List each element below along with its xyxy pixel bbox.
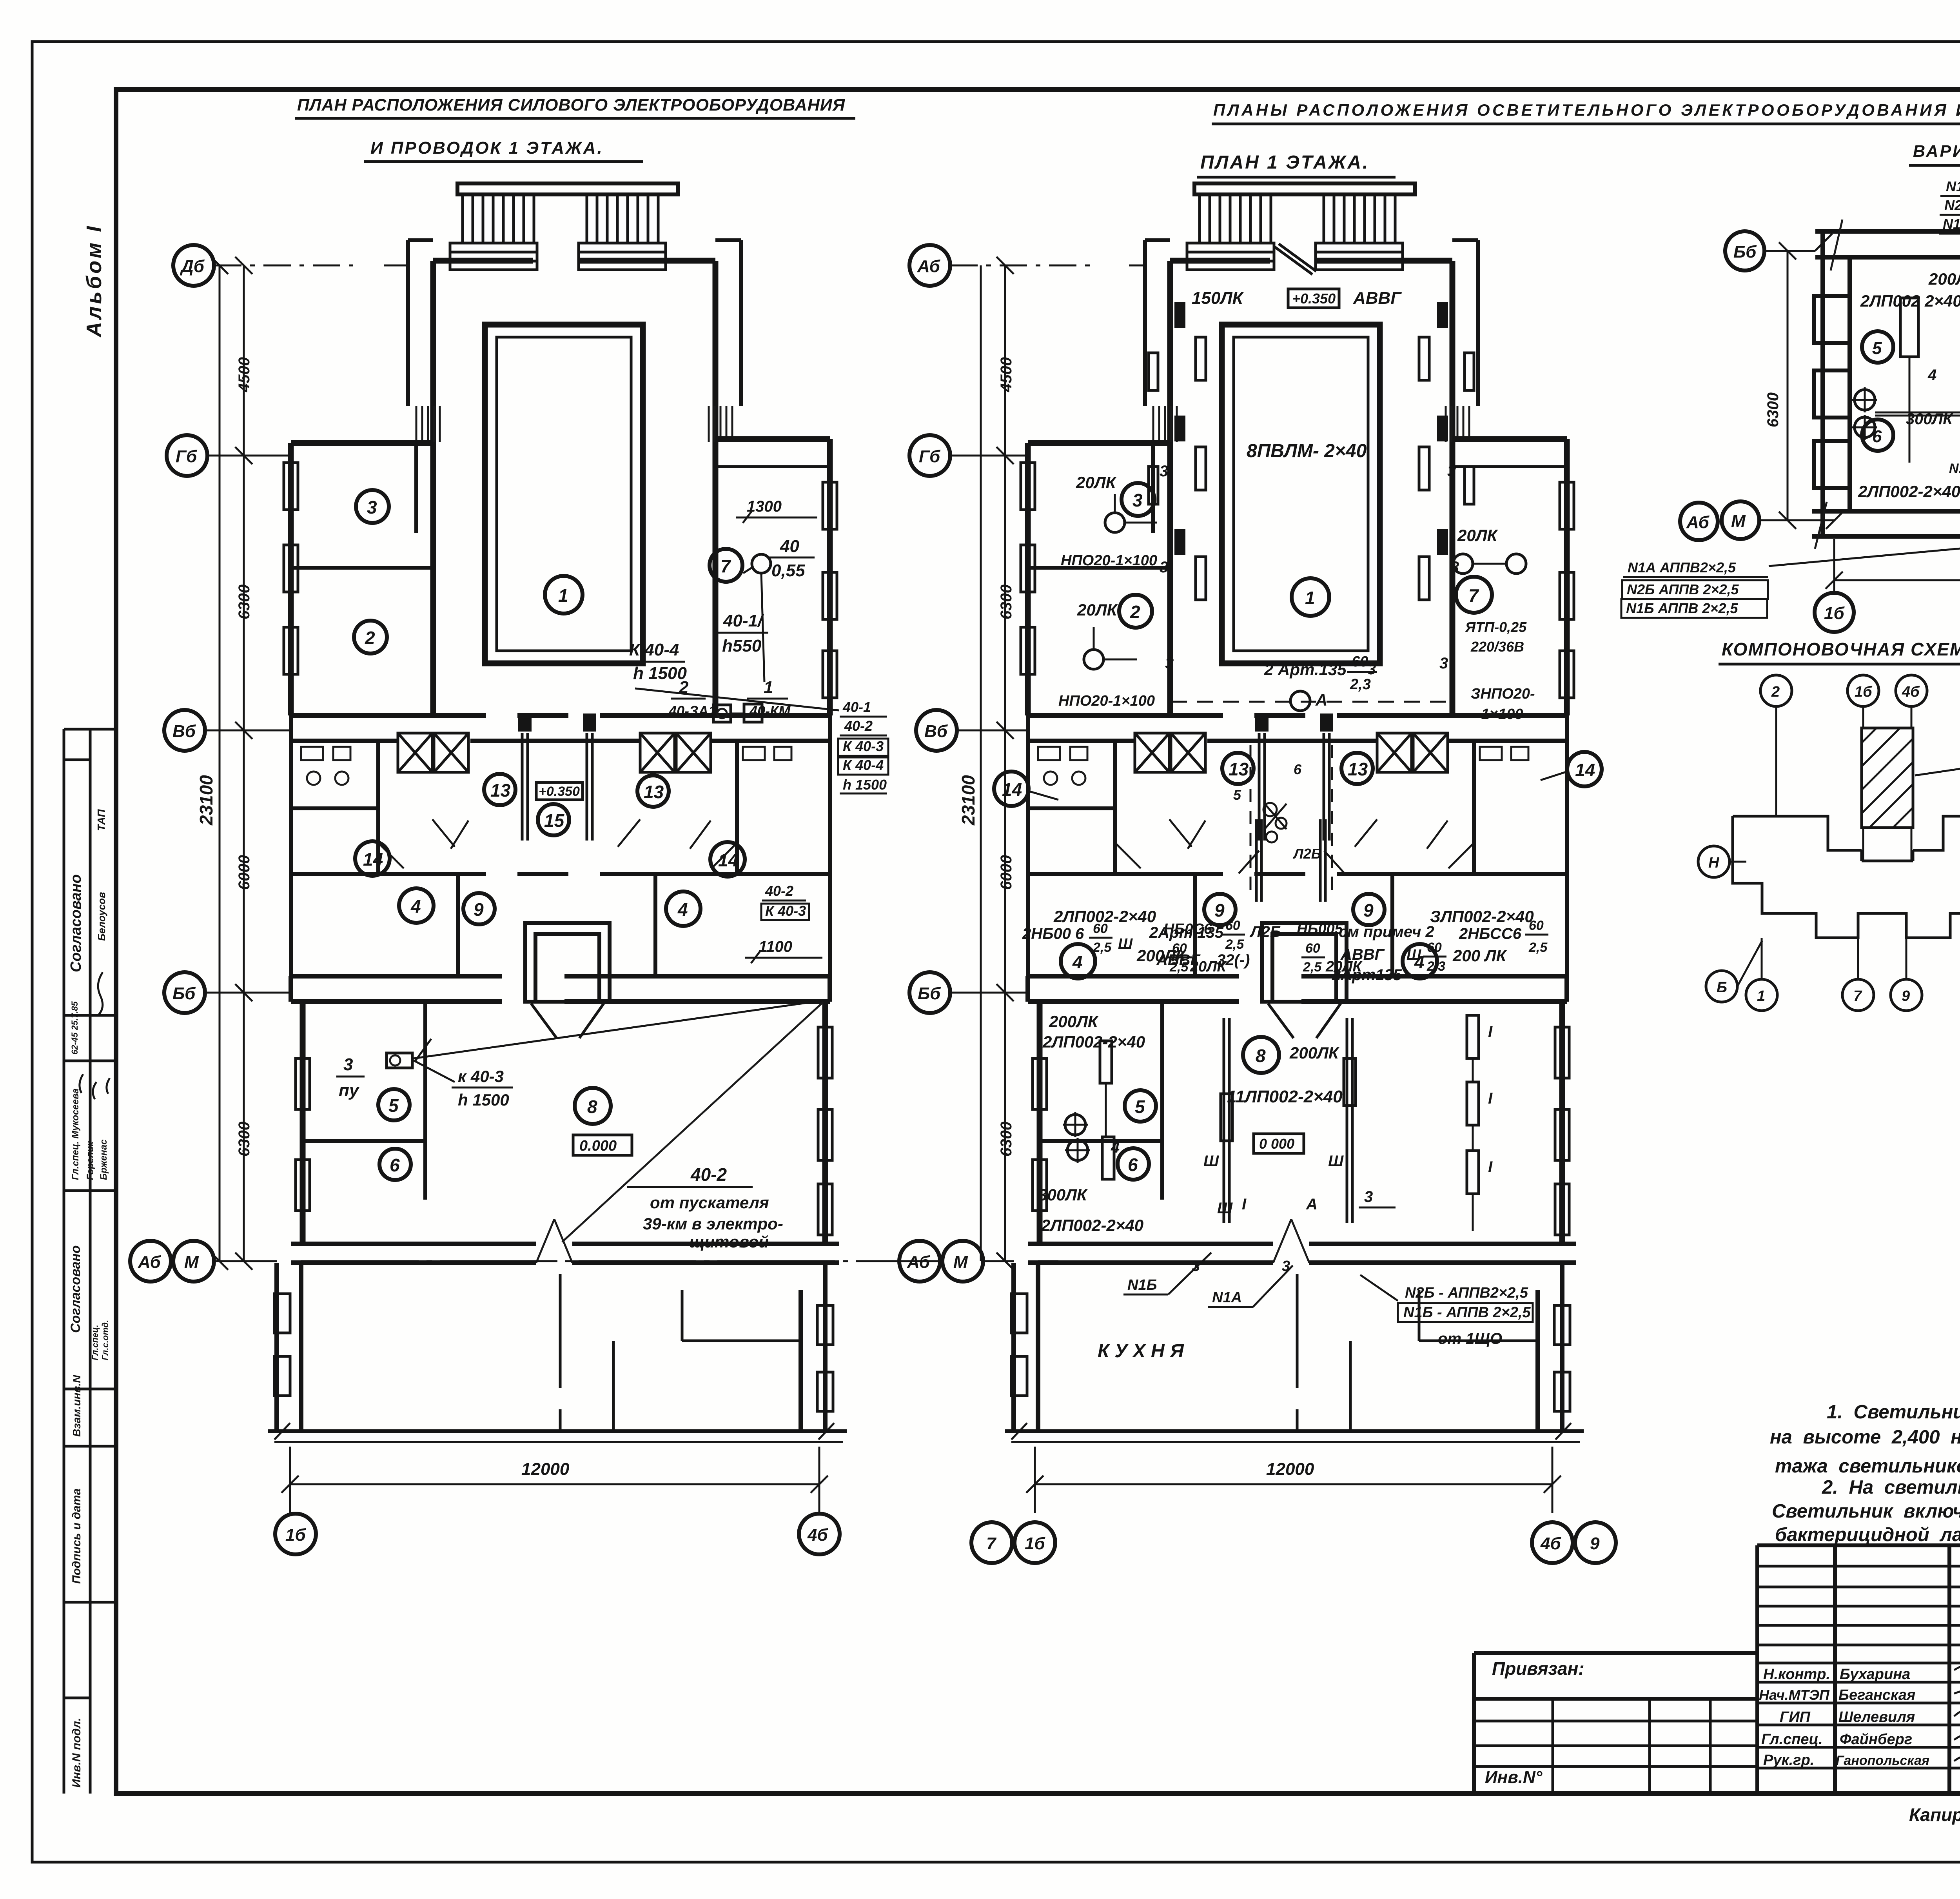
svg-text:ГИП: ГИП <box>1780 1709 1811 1725</box>
svg-text:3: 3 <box>1132 490 1143 510</box>
svg-text:2,3: 2,3 <box>1426 959 1445 974</box>
variant lamp circles <box>1852 387 1960 496</box>
svg-text:Бб: Бб <box>918 984 941 1003</box>
svg-text:3: 3 <box>1160 463 1168 480</box>
svg-text:15: 15 <box>544 810 565 831</box>
svg-text:ЗНПО20-: ЗНПО20- <box>1471 686 1535 702</box>
svg-text:39-км в электро-: 39-км в электро- <box>643 1215 783 1233</box>
svg-text:I: I <box>1488 1090 1493 1107</box>
title block left box <box>1474 1653 1757 1794</box>
left plan building <box>268 183 847 1442</box>
svg-text:0.000: 0.000 <box>579 1138 617 1154</box>
svg-text:9: 9 <box>474 899 484 920</box>
svg-text:Вб: Вб <box>172 722 196 741</box>
svg-text:I: I <box>1488 1023 1493 1040</box>
svg-text:200ЛК: 200ЛК <box>1049 1012 1099 1031</box>
svg-text:300ЛК: 300ЛК <box>1906 410 1953 428</box>
svg-text:60: 60 <box>1172 941 1187 956</box>
svg-text:5: 5 <box>1233 787 1241 803</box>
svg-text:Бб: Бб <box>172 984 196 1003</box>
svg-text:Шелевиля: Шелевиля <box>1838 1709 1915 1725</box>
svg-text:К 40-3: К 40-3 <box>843 738 884 754</box>
svg-text:Аб: Аб <box>917 257 941 276</box>
svg-text:200 ЛК: 200 ЛК <box>1452 946 1508 965</box>
middle plan bottom axis circles <box>971 1522 1616 1563</box>
middle plan pool lamp marks <box>1149 302 1474 600</box>
svg-text:Файнберг: Файнберг <box>1840 1731 1912 1748</box>
svg-text:7: 7 <box>720 556 731 576</box>
svg-text:НБ0С6: НБ0С6 <box>1163 921 1212 937</box>
svg-text:1300: 1300 <box>747 498 782 515</box>
svg-text:Аб: Аб <box>1686 513 1710 532</box>
svg-text:h550: h550 <box>722 636 762 655</box>
svg-text:М: М <box>184 1253 199 1272</box>
svg-text:2,5: 2,5 <box>1169 960 1189 975</box>
svg-text:1. Светильники ПВЛМ - 2×40 у: 1. Светильники ПВЛМ - 2×40 установить на… <box>1827 1402 1960 1423</box>
svg-text:ПЛАН 1 ЭТАЖА.: ПЛАН 1 ЭТАЖА. <box>1200 152 1369 173</box>
svg-text:9: 9 <box>1902 988 1910 1004</box>
svg-text:5: 5 <box>1135 1097 1145 1117</box>
svg-text:ТАП: ТАП <box>95 809 107 831</box>
left plan title <box>295 96 855 162</box>
svg-text:К 40-4: К 40-4 <box>843 757 884 773</box>
left plan elevation box 0.000 <box>573 1135 632 1155</box>
left plan dim texts <box>196 357 253 1156</box>
middle plan axis lines <box>950 265 1145 1261</box>
svg-text:20ЛК: 20ЛК <box>1076 473 1117 492</box>
svg-text:И ПРОВОДОК 1 ЭТАЖА.: И ПРОВОДОК 1 ЭТАЖА. <box>370 138 604 158</box>
svg-text:3: 3 <box>1192 1258 1200 1274</box>
variant axis + dim lines <box>1759 234 1843 529</box>
svg-text:3: 3 <box>1364 1188 1373 1205</box>
svg-text:40-2: 40-2 <box>844 718 873 734</box>
scheme axis circles <box>1698 846 1737 1002</box>
notes text <box>1770 1402 1960 1545</box>
left plan vertical dim lines <box>211 257 252 1270</box>
svg-text:НПО20-1×100: НПО20-1×100 <box>1061 552 1157 569</box>
variant luminaire lines <box>1900 288 1960 498</box>
svg-text:Гл.спец. Мукосеева: Гл.спец. Мукосеева <box>70 1088 81 1180</box>
svg-text:Аб: Аб <box>907 1253 931 1272</box>
svg-text:Гб: Гб <box>176 447 198 466</box>
svg-text:Гл.спец.: Гл.спец. <box>90 1325 100 1360</box>
svg-text:N1А АППВ2×2,5: N1А АППВ2×2,5 <box>1628 559 1736 576</box>
svg-text:2: 2 <box>1771 684 1780 700</box>
svg-text:3: 3 <box>1450 559 1459 576</box>
svg-text:Ш: Ш <box>1118 936 1133 952</box>
svg-text:7: 7 <box>1468 585 1479 606</box>
svg-text:4: 4 <box>1927 367 1936 384</box>
svg-text:КОМПОНОВОЧНАЯ СХЕМА.: КОМПОНОВОЧНАЯ СХЕМА. <box>1722 639 1960 659</box>
svg-text:2. На светильнике выполнить: 2. На светильнике выполнить надпись „ Не… <box>1822 1477 1960 1498</box>
left plan bottom dim <box>281 1447 828 1513</box>
svg-text:1б: 1б <box>1025 1534 1045 1553</box>
svg-text:2,5: 2,5 <box>1303 960 1322 975</box>
svg-text:0 000: 0 000 <box>1259 1136 1294 1152</box>
svg-text:ЯТП-0,25: ЯТП-0,25 <box>1465 619 1527 635</box>
svg-text:N1Б: N1Б <box>1127 1277 1157 1293</box>
middle plan axis circles <box>899 245 983 1282</box>
svg-text:от 1ЩО: от 1ЩО <box>1438 1330 1502 1347</box>
svg-text:4: 4 <box>677 899 688 920</box>
svg-text:3: 3 <box>1439 655 1448 672</box>
svg-text:бактерицидной лампой.: бактерицидной лампой. <box>1775 1524 1960 1545</box>
svg-text:N2Б - АППВ2×2,5: N2Б - АППВ2×2,5 <box>1405 1285 1528 1301</box>
svg-text:20ЛК: 20ЛК <box>1325 959 1363 975</box>
right half main title <box>1212 101 1960 124</box>
svg-text:4б: 4б <box>807 1525 828 1545</box>
svg-text:6: 6 <box>1294 761 1302 777</box>
svg-text:НПО20-1×100: НПО20-1×100 <box>1058 693 1155 709</box>
svg-text:40-ЗА1: 40-ЗА1 <box>668 703 716 719</box>
svg-text:1б: 1б <box>285 1525 306 1545</box>
scheme title <box>1719 639 1960 664</box>
variant title <box>1909 141 1960 165</box>
svg-text:К 40-4: К 40-4 <box>629 640 679 659</box>
svg-text:Белоусов: Белоусов <box>96 892 107 941</box>
svg-text:N1Б АППВ 2×2,5: N1Б АППВ 2×2,5 <box>1626 600 1738 616</box>
svg-text:6000: 6000 <box>236 855 253 890</box>
svg-text:4500: 4500 <box>236 357 253 392</box>
svg-text:Н: Н <box>1708 855 1720 871</box>
svg-text:13: 13 <box>1348 759 1368 779</box>
variant bottom axis circles <box>1815 593 1960 632</box>
svg-text:13: 13 <box>644 782 664 802</box>
svg-text:КУХНЯ: КУХНЯ <box>1098 1341 1189 1362</box>
svg-text:12000: 12000 <box>1266 1460 1314 1479</box>
svg-text:2,3: 2,3 <box>1350 676 1371 693</box>
left plan axis lines <box>205 265 941 1261</box>
svg-text:Горелик: Горелик <box>85 1141 96 1180</box>
middle plan rooms4 labels <box>1050 907 1534 975</box>
middle plan 14 leaders <box>1029 772 1567 800</box>
svg-text:1: 1 <box>1305 588 1315 608</box>
svg-text:6300: 6300 <box>998 1122 1015 1156</box>
svg-text:20ЛК: 20ЛК <box>1457 526 1499 545</box>
svg-text:300ЛК: 300ЛК <box>1038 1186 1088 1204</box>
svg-text:Согласовано: Согласовано <box>68 874 84 972</box>
middle plan entrance diagonal <box>1275 244 1316 274</box>
left plan bottom axis circles <box>275 1514 840 1554</box>
svg-text:3: 3 <box>1165 655 1174 672</box>
svg-text:от пускателя: от пускателя <box>650 1193 769 1212</box>
svg-text:Н.контр.: Н.контр. <box>1763 1666 1830 1683</box>
svg-text:Согласовано: Согласовано <box>68 1245 83 1333</box>
scheme pool hatched <box>1862 728 1913 828</box>
left stamp column <box>64 729 116 1794</box>
svg-text:2ЛП002 2×40: 2ЛП002 2×40 <box>1860 292 1960 310</box>
left plan room8 labels <box>336 1000 823 1251</box>
svg-text:Ш: Ш <box>1203 1153 1219 1170</box>
svg-text:9: 9 <box>1590 1534 1600 1553</box>
svg-text:60: 60 <box>1352 654 1368 670</box>
svg-text:1б: 1б <box>1824 604 1845 623</box>
svg-text:3: 3 <box>367 497 377 517</box>
svg-text:Л2Б: Л2Б <box>1249 923 1281 940</box>
svg-text:40: 40 <box>780 537 799 556</box>
svg-text:40-2: 40-2 <box>765 883 793 899</box>
svg-text:13: 13 <box>1229 759 1249 779</box>
svg-text:Ганопольская: Ганопольская <box>1836 1753 1929 1768</box>
svg-text:см примеч 2: см примеч 2 <box>1339 923 1434 940</box>
svg-text:на высоте 2,400 над полом.: на высоте 2,400 над полом. Прокладку каб… <box>1770 1427 1960 1448</box>
svg-text:Светильник включается одновр: Светильник включается одновременно с неэ… <box>1772 1501 1960 1522</box>
middle plan hall labels <box>1192 289 1402 461</box>
svg-text:-1×100: -1×100 <box>1476 706 1523 723</box>
svg-text:А: А <box>1315 691 1327 709</box>
scheme bottom circles <box>1746 979 1960 1011</box>
svg-text:Вб: Вб <box>924 722 948 741</box>
copy line <box>1909 1803 1960 1834</box>
svg-text:Гл.спец.: Гл.спец. <box>1761 1731 1823 1748</box>
svg-text:23100: 23100 <box>958 775 978 826</box>
svg-text:Б: Б <box>1717 979 1727 996</box>
svg-text:40-1: 40-1 <box>842 699 871 715</box>
svg-text:14: 14 <box>1575 760 1595 780</box>
svg-text:Капиркал впу: Капиркал впу <box>1909 1805 1960 1825</box>
variant left wall windows <box>1814 296 1850 488</box>
svg-text:+0.350: +0.350 <box>539 784 580 799</box>
variant labels <box>1858 270 1960 534</box>
svg-text:6: 6 <box>390 1155 400 1175</box>
svg-text:4б: 4б <box>1902 684 1920 700</box>
svg-text:3: 3 <box>1282 1258 1290 1274</box>
svg-text:1б: 1б <box>1855 684 1873 700</box>
middle plan room circles <box>994 483 1602 1180</box>
svg-text:9: 9 <box>1214 900 1225 920</box>
svg-text:Ш: Ш <box>1328 1153 1344 1170</box>
svg-text:N1Б - АППВ 2×2,5: N1Б - АППВ 2×2,5 <box>1403 1304 1531 1321</box>
middle plan bottom labels <box>1098 1253 1533 1362</box>
svg-text:ПЛАН РАСПОЛОЖЕНИЯ СИЛОВОГО: ПЛАН РАСПОЛОЖЕНИЯ СИЛОВОГО ЭЛЕКТРООБОРУД… <box>297 96 846 114</box>
middle plan wing labels <box>1058 463 1535 723</box>
svg-text:Бб: Бб <box>1733 242 1757 261</box>
svg-text:Взам.инв.N: Взам.инв.N <box>71 1375 83 1437</box>
svg-text:пу: пу <box>339 1081 360 1100</box>
svg-text:1100: 1100 <box>759 938 792 955</box>
svg-text:Рук.гр.: Рук.гр. <box>1763 1752 1814 1768</box>
svg-text:h 1500: h 1500 <box>458 1091 509 1109</box>
svg-text:6: 6 <box>1128 1155 1138 1175</box>
svg-text:h 1500: h 1500 <box>843 777 887 793</box>
svg-text:Подпись и дата: Подпись и дата <box>70 1489 83 1584</box>
variant left cable box labels <box>1621 546 1960 618</box>
svg-text:40-2: 40-2 <box>690 1164 727 1185</box>
svg-text:К 40-3: К 40-3 <box>765 903 806 919</box>
svg-text:220/36В: 220/36В <box>1470 639 1524 655</box>
middle plan dashed cable run <box>1171 474 1450 702</box>
svg-text:4б: 4б <box>1540 1534 1561 1553</box>
svg-text:ВАРИАНТ ОТДЕЛЬНОГО ВХОДА В: ВАРИАНТ ОТДЕЛЬНОГО ВХОДА В БАССЕЙН <box>1913 141 1960 161</box>
svg-text:23100: 23100 <box>196 775 216 826</box>
svg-text:Л2Б: Л2Б <box>1292 846 1321 862</box>
svg-text:2НБ00 6: 2НБ00 6 <box>1022 925 1084 942</box>
svg-text:Бухарина: Бухарина <box>1840 1666 1910 1683</box>
left plan 40-2 k40-3 wall labels <box>761 883 809 920</box>
middle plan title <box>1197 152 1396 177</box>
svg-text:40-1/: 40-1/ <box>723 611 764 630</box>
variant room circles <box>1862 294 1960 451</box>
variant walls <box>1812 231 1960 536</box>
middle plan central risers cluster <box>1233 745 1345 902</box>
svg-text:6000: 6000 <box>998 855 1015 890</box>
svg-text:2: 2 <box>1130 602 1140 622</box>
svg-text:4500: 4500 <box>998 357 1015 392</box>
svg-text:12000: 12000 <box>521 1460 570 1479</box>
middle plan bottom dim <box>1026 1447 1561 1513</box>
svg-text:20ЛК: 20ЛК <box>1077 601 1118 619</box>
svg-text:2,5: 2,5 <box>1093 940 1112 955</box>
middle plan vertical dim lines <box>981 257 1014 1270</box>
svg-text:20ЛК: 20ЛК <box>1190 959 1227 975</box>
svg-text:2ЛП002-2×40: 2ЛП002-2×40 <box>1041 1216 1143 1235</box>
svg-text:Нач.МТЭП: Нач.МТЭП <box>1759 1687 1830 1703</box>
variant bottom dim <box>1826 539 1960 593</box>
variant top cable labels <box>1939 178 1960 259</box>
svg-text:АВВГ: АВВГ <box>1353 289 1402 308</box>
svg-text:НБ005: НБ005 <box>1297 921 1343 937</box>
svg-text:N2Б АППВ 2×2,5: N2Б АППВ 2×2,5 <box>1627 581 1739 597</box>
scheme outline <box>1733 816 1960 938</box>
svg-text:N2Б 2×2,5: N2Б 2×2,5 <box>1944 197 1960 213</box>
svg-text:М: М <box>953 1253 968 1272</box>
svg-text:Ш: Ш <box>1406 947 1421 963</box>
left plan room circles <box>354 490 745 1180</box>
svg-text:14: 14 <box>718 850 738 870</box>
scheme top circles <box>1760 675 1960 706</box>
svg-text:I: I <box>1488 1158 1493 1176</box>
svg-text:7: 7 <box>1853 988 1862 1004</box>
svg-text:60: 60 <box>1225 918 1240 933</box>
svg-text:200ЛК: 200ЛК <box>1289 1044 1340 1062</box>
middle plan room8 labels <box>1038 1012 1493 1235</box>
svg-text:щитовой: щитовой <box>689 1233 769 1251</box>
svg-text:тажа светильников выполнить: тажа светильников выполнить по швеллеру. <box>1775 1456 1960 1477</box>
svg-text:Аб: Аб <box>138 1253 162 1272</box>
svg-text:N16: N16 <box>1949 461 1960 476</box>
title block grid tall <box>1757 1545 1960 1794</box>
svg-text:6: 6 <box>1872 427 1882 446</box>
left plan elevation box 0.350 <box>536 782 583 800</box>
svg-text:2,5: 2,5 <box>1528 940 1548 955</box>
svg-text:8: 8 <box>587 1097 597 1117</box>
svg-text:ЗЛП002-2×40: ЗЛП002-2×40 <box>1430 907 1534 926</box>
svg-text:0,55: 0,55 <box>771 561 805 580</box>
svg-text:6300: 6300 <box>236 1122 253 1156</box>
svg-text:2ЛП002-2×40: 2ЛП002-2×40 <box>1053 907 1156 926</box>
svg-text:2ЛП002-2×40: 2ЛП002-2×40 <box>1042 1033 1145 1051</box>
svg-text:Альбом I: Альбом I <box>82 224 106 338</box>
svg-text:200ЛК: 200ЛК <box>1928 270 1960 288</box>
svg-text:8: 8 <box>1256 1046 1266 1066</box>
svg-text:1: 1 <box>558 585 568 606</box>
svg-text:2: 2 <box>365 628 375 648</box>
svg-text:3: 3 <box>1160 559 1168 576</box>
svg-text:Беганская: Беганская <box>1838 1687 1915 1703</box>
variant break marks <box>1815 220 1960 549</box>
middle plan building <box>1005 183 1584 1442</box>
svg-text:М: М <box>1731 512 1746 531</box>
left plan cable stack labels <box>838 699 888 793</box>
svg-text:Привязан:: Привязан: <box>1492 1658 1584 1679</box>
variant axis circles <box>1680 231 1764 540</box>
svg-text:Дб: Дб <box>180 257 205 276</box>
svg-text:6300: 6300 <box>998 585 1015 619</box>
svg-text:14: 14 <box>363 849 383 870</box>
left plan axis circles <box>130 245 214 1282</box>
svg-text:Инв.N подл.: Инв.N подл. <box>70 1718 83 1788</box>
svg-text:к 40-3: к 40-3 <box>458 1067 504 1086</box>
svg-text:3: 3 <box>343 1055 353 1074</box>
svg-text:62-45 25.7.85: 62-45 25.7.85 <box>70 1001 80 1055</box>
svg-text:13: 13 <box>490 780 511 801</box>
svg-text:6300: 6300 <box>236 585 253 619</box>
svg-text:60: 60 <box>1427 940 1442 955</box>
svg-text:5: 5 <box>388 1095 399 1116</box>
middle plan band labels <box>1022 918 1548 984</box>
svg-text:5: 5 <box>1872 339 1882 358</box>
svg-text:2,5: 2,5 <box>1225 937 1244 952</box>
svg-text:2ЛП002-2×40: 2ЛП002-2×40 <box>1858 482 1960 501</box>
svg-text:Инв.N°: Инв.N° <box>1485 1768 1543 1787</box>
svg-text:4: 4 <box>410 896 421 917</box>
svg-text:150ЛК: 150ЛК <box>1192 289 1244 308</box>
left plan 1100 dim <box>745 938 822 963</box>
svg-text:7: 7 <box>986 1534 997 1553</box>
svg-text:60: 60 <box>1305 941 1320 956</box>
svg-text:3: 3 <box>1447 463 1456 480</box>
svg-text:4: 4 <box>1072 952 1083 972</box>
svg-text:8ПВЛМ- 2×40: 8ПВЛМ- 2×40 <box>1247 441 1367 461</box>
svg-text:9: 9 <box>1363 900 1374 920</box>
svg-text:2 Арт.135: 2 Арт.135 <box>1264 660 1347 679</box>
svg-text:I: I <box>1242 1196 1247 1213</box>
svg-text:Гб: Гб <box>919 447 941 466</box>
svg-text:Брженас: Брженас <box>98 1139 109 1180</box>
svg-text:N1А: N1А <box>1212 1289 1242 1306</box>
svg-text:6300: 6300 <box>1764 392 1782 427</box>
scheme leader lines <box>1762 706 1960 979</box>
title block names <box>1759 1665 1960 1768</box>
svg-text:3: 3 <box>1367 661 1376 678</box>
svg-text:11ЛП002-2×40: 11ЛП002-2×40 <box>1227 1087 1343 1106</box>
svg-text:2НБСС6: 2НБСС6 <box>1459 925 1522 942</box>
svg-text:1: 1 <box>1757 988 1765 1004</box>
svg-text:4: 4 <box>1111 1139 1120 1156</box>
svg-text:А: А <box>1306 1196 1318 1213</box>
svg-text:N1А 2×25: N1А 2×25 <box>1946 178 1960 194</box>
svg-text:+0.350: +0.350 <box>1292 290 1336 307</box>
svg-text:ПЛАНЫ РАСПОЛОЖЕНИЯ ОСВЕТИТ: ПЛАНЫ РАСПОЛОЖЕНИЯ ОСВЕТИТЕЛЬНОГО ЭЛЕКТР… <box>1213 101 1960 119</box>
svg-text:Гл.с.отд.: Гл.с.отд. <box>100 1320 110 1360</box>
middle plan dim texts <box>958 357 1015 1156</box>
left plan labels right wing <box>624 498 839 722</box>
